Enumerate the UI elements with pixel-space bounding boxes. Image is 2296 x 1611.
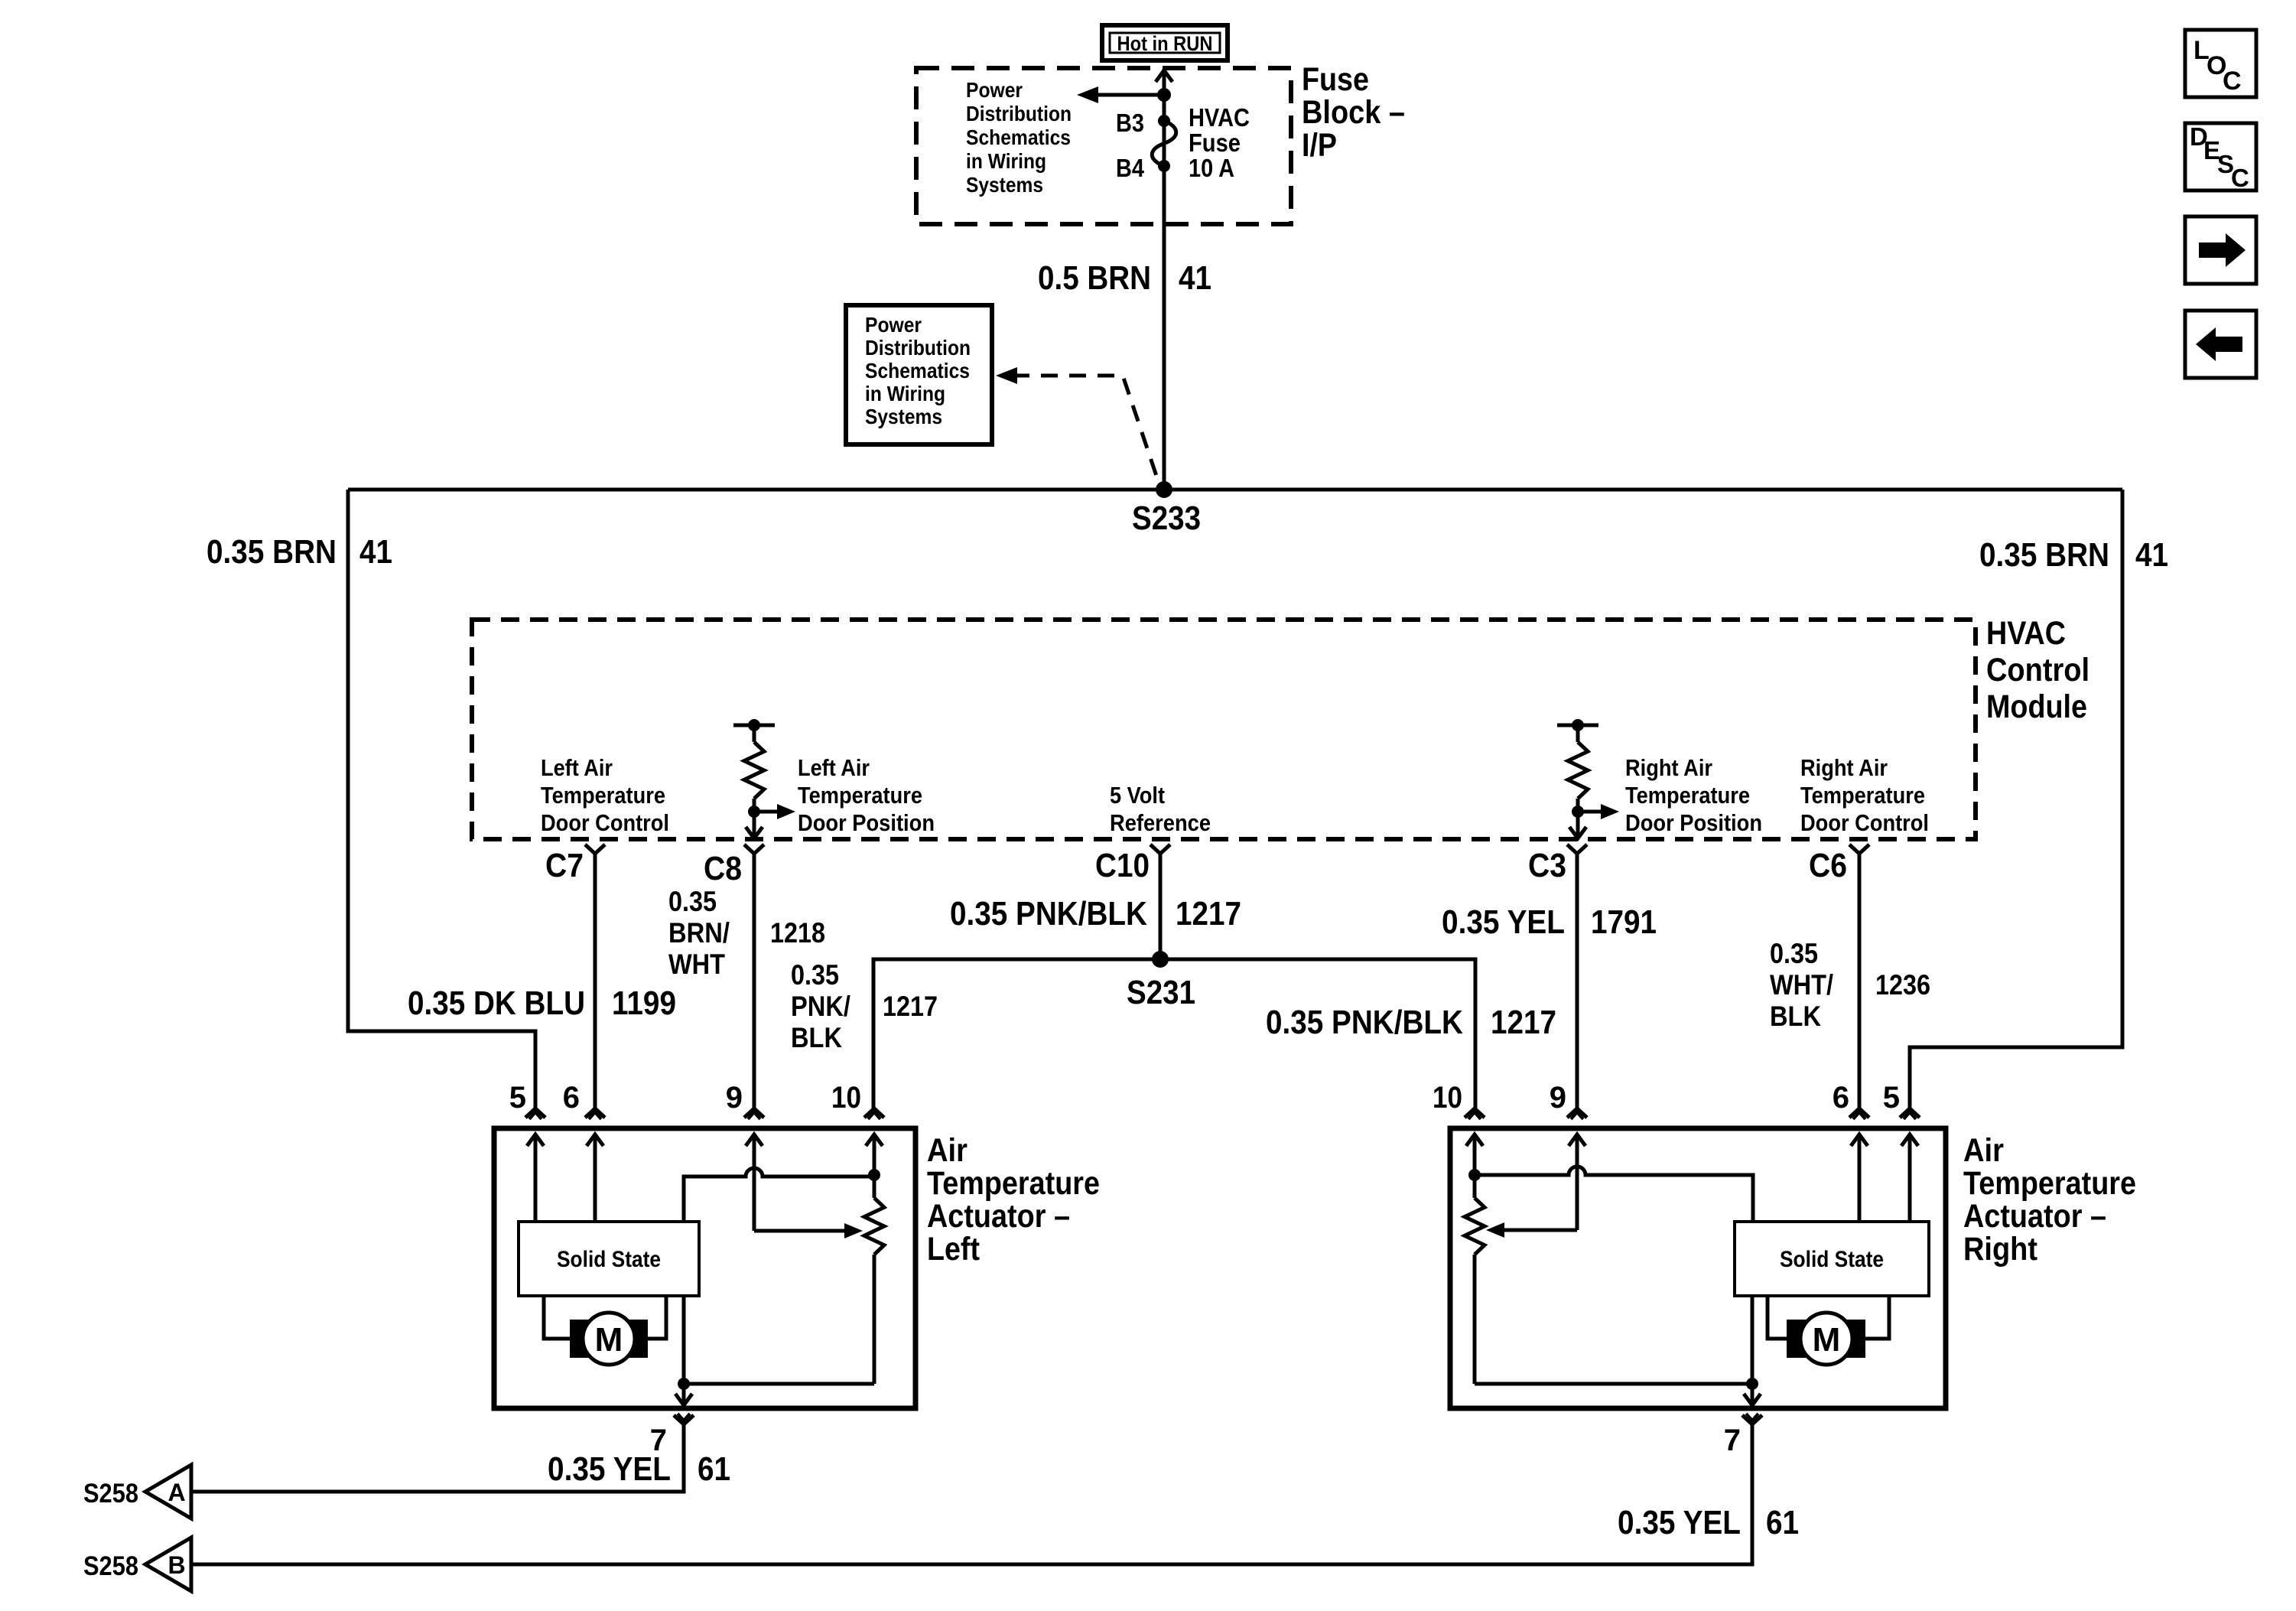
svg-text:C: C: [2231, 164, 2249, 192]
svg-text:C8: C8: [704, 850, 742, 887]
svg-text:0.35 YEL: 0.35 YEL: [1442, 903, 1565, 941]
svg-text:A: A: [167, 1479, 185, 1506]
svg-text:C7: C7: [545, 847, 584, 884]
connector C8: [744, 845, 764, 854]
svg-text:S258: S258: [83, 1479, 138, 1508]
wire: branch to power distribution (left arrow): [1095, 93, 1164, 97]
icon button DESC: [2185, 123, 2256, 190]
wire: solid state riser right to pot top with hop over pin 9: [1475, 1167, 1753, 1222]
pin 6 right arrow into solid state: [1858, 1134, 1862, 1222]
svg-text:1217: 1217: [1491, 1004, 1556, 1041]
svg-text:1236: 1236: [1875, 969, 1930, 1001]
svg-text:S258: S258: [83, 1551, 138, 1581]
wiper arrow module right: [1578, 810, 1602, 814]
splice S258 B triangle: [145, 1538, 191, 1591]
splice S258 A triangle: [145, 1465, 191, 1518]
wire: solid state bottom to pin 7 right: [1751, 1296, 1755, 1404]
HVAC control module dashed box: [472, 620, 1976, 839]
motor leads left: [544, 1296, 571, 1339]
connector C3: [1567, 845, 1587, 854]
fuse block I/P dashed box: [916, 68, 1291, 224]
label: Hot in RUN box: [1102, 25, 1228, 60]
svg-text:1199: 1199: [612, 984, 676, 1022]
junction pin7 right: [1746, 1378, 1758, 1390]
svg-text:10: 10: [1433, 1081, 1462, 1115]
motor M left: [583, 1313, 635, 1365]
pin 7 right connector: [1742, 1415, 1762, 1424]
svg-text:0.35 PNK/BLK: 0.35 PNK/BLK: [1266, 1004, 1463, 1041]
svg-text:10: 10: [831, 1081, 861, 1115]
potentiometer right actuator: [1473, 1175, 1477, 1198]
junction in fuse block: [1157, 88, 1171, 102]
svg-text:M: M: [595, 1321, 623, 1359]
wiper arrow module left: [754, 810, 779, 814]
svg-text:0.5 BRN: 0.5 BRN: [1038, 259, 1151, 297]
pin 5 left arrow into solid state: [534, 1134, 538, 1222]
svg-text:9: 9: [726, 1081, 743, 1115]
svg-text:41: 41: [2135, 536, 2168, 574]
svg-text:Solid State: Solid State: [557, 1247, 661, 1272]
svg-text:B: B: [167, 1551, 185, 1579]
connector C6: [1849, 845, 1869, 854]
pin 5 right connector: [1900, 1108, 1920, 1118]
wire C10 to splice S231 0.35 PNK/BLK 1217: [1159, 854, 1163, 959]
wire C7 to pin 6 left actuator 0.35 DK BLU 1199: [594, 854, 597, 1108]
wire: battery feed vertical from Hot in RUN to S233: [1163, 69, 1166, 490]
svg-text:S231: S231: [1127, 974, 1195, 1011]
wire: pot bottom to pin7 junction right: [1475, 1382, 1752, 1386]
svg-text:6: 6: [1833, 1081, 1849, 1115]
pin 6 right connector: [1849, 1108, 1869, 1118]
svg-text:1217: 1217: [1176, 895, 1241, 932]
pin 6 left arrow into solid state: [594, 1134, 597, 1222]
svg-text:0.35 YEL: 0.35 YEL: [548, 1450, 671, 1488]
pin 6 left connector: [585, 1108, 605, 1118]
icon button previous arrow: [2185, 311, 2256, 378]
wire: solid state bottom to pin 7 left: [682, 1296, 686, 1404]
junction pin10 right: [1468, 1169, 1481, 1181]
wire: pot bottom to pin7 junction left: [684, 1382, 874, 1386]
splice S231: [1152, 951, 1169, 968]
pin 9 left connector: [744, 1108, 764, 1118]
svg-text:M: M: [1813, 1321, 1841, 1359]
fuse F1: HVAC Fuse 10 A: [1158, 115, 1170, 127]
svg-text:61: 61: [1766, 1504, 1799, 1541]
svg-text:5: 5: [509, 1081, 526, 1115]
pin 10 left connector: [864, 1108, 884, 1118]
svg-text:7: 7: [1724, 1424, 1741, 1457]
splice S233: [1156, 481, 1172, 498]
svg-text:61: 61: [698, 1450, 730, 1488]
solid state box right: [1735, 1222, 1929, 1296]
svg-text:B4: B4: [1116, 154, 1145, 182]
potentiometer in module left (feedback divider): [733, 724, 775, 727]
svg-text:C6: C6: [1809, 847, 1847, 884]
solid state box left: [519, 1222, 699, 1296]
pin 10 left wire: [873, 1134, 876, 1175]
svg-text:9: 9: [1550, 1081, 1566, 1115]
wire: solid state riser to pot top with hop over pin 9: [684, 1168, 874, 1222]
junction pin7 left: [678, 1378, 690, 1390]
wire: pin 7 right 0.35 YEL 61 to S258 B: [191, 1424, 1752, 1564]
wire: right 0.35 BRN branch to right actuator pin 5: [1910, 490, 2122, 1108]
svg-text:B3: B3: [1116, 109, 1144, 137]
arrow up into Hot in RUN: [1156, 70, 1172, 82]
wire: pin 7 left 0.35 YEL 61 to S258 A: [191, 1424, 684, 1492]
svg-text:0.35 DK BLU: 0.35 DK BLU: [408, 984, 585, 1022]
wire: module left pot to C8 with down arrow: [753, 812, 756, 837]
wire C8 to pin 9 left actuator 0.35 BRN/WHT 1218: [753, 854, 756, 1108]
svg-text:5: 5: [1883, 1081, 1900, 1115]
svg-text:41: 41: [359, 533, 392, 571]
svg-text:C3: C3: [1528, 847, 1566, 884]
wire: left 0.35 BRN branch to left actuator pin 5: [348, 490, 535, 1108]
pin 5 left connector: [525, 1108, 545, 1118]
splice S233 bus wire: [348, 488, 2122, 492]
pin 5 right arrow into solid state: [1908, 1134, 1912, 1222]
air temperature actuator right box: [1450, 1128, 1946, 1408]
pin 10 right connector: [1465, 1108, 1485, 1118]
potentiometer in module right (feedback divider): [1557, 724, 1598, 727]
svg-text:0.35 PNK/BLK: 0.35 PNK/BLK: [950, 895, 1147, 932]
svg-text:1218: 1218: [770, 917, 825, 949]
svg-text:Hot in RUN: Hot in RUN: [1117, 32, 1213, 55]
svg-text:0.35 BRN: 0.35 BRN: [207, 533, 337, 571]
icon button next arrow: [2185, 216, 2256, 284]
svg-text:C10: C10: [1095, 847, 1150, 884]
pin 9 right connector: [1567, 1108, 1587, 1118]
icon button LOC: [2185, 30, 2256, 97]
pin 7 left connector: [674, 1415, 694, 1424]
svg-text:S233: S233: [1132, 500, 1201, 537]
wire: module right pot to C3 with down arrow: [1576, 812, 1580, 837]
svg-text:Solid State: Solid State: [1780, 1247, 1884, 1272]
svg-text:1217: 1217: [883, 991, 938, 1022]
svg-text:C: C: [2223, 67, 2242, 96]
connector C10: [1150, 845, 1170, 854]
svg-text:1791: 1791: [1591, 903, 1657, 941]
motor leads right: [1768, 1296, 1787, 1339]
potentiometer left actuator: [873, 1175, 876, 1198]
wire C3 to pin 9 right actuator 0.35 YEL 1791: [1576, 854, 1579, 1108]
motor M right: [1800, 1313, 1852, 1365]
pin 9 right wire to wiper arrow: [1576, 1134, 1579, 1230]
svg-text:0.35 BRN: 0.35 BRN: [1979, 536, 2109, 574]
air temperature actuator left box: [494, 1128, 915, 1408]
junction pin10 left: [868, 1169, 880, 1181]
motor brushes left: [570, 1320, 589, 1358]
wire C6 to pin 6 right actuator 0.35 WHT/BLK 1236: [1858, 854, 1862, 1108]
power distribution schematics reference box: [846, 305, 992, 444]
motor brushes right: [1787, 1320, 1806, 1358]
pin 10 right wire: [1473, 1134, 1477, 1175]
splice S231 wire to both actuators pin 10: [873, 959, 1475, 1108]
pin 9 left wire to wiper arrow: [753, 1134, 756, 1231]
svg-text:0.35 YEL: 0.35 YEL: [1618, 1504, 1741, 1541]
dashed reference arrow to power distribution box: [1013, 376, 1156, 476]
svg-text:41: 41: [1179, 259, 1211, 297]
svg-text:6: 6: [563, 1081, 580, 1115]
connector C7: [585, 845, 605, 854]
